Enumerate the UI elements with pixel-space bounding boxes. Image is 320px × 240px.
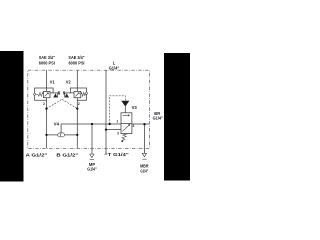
node A shuttle junction — [45, 134, 47, 136]
svg-text:V1: V1 — [50, 80, 56, 85]
svg-text:T G1/4": T G1/4" — [108, 152, 129, 157]
svg-text:V2: V2 — [66, 80, 72, 85]
node B shuttle junction — [76, 134, 78, 136]
wire: L/T line — [105, 70, 107, 152]
valve V1 loop wire — [35, 88, 54, 100]
black scan bar right — [164, 53, 190, 181]
valve V2 seat line — [65, 92, 74, 94]
valve V1 check outlet wire — [53, 93, 57, 97]
svg-text:6000 PSI: 6000 PSI — [39, 60, 55, 65]
black scan bar left — [0, 51, 24, 182]
valve V3 divider — [121, 122, 132, 124]
svg-text:3: 3 — [117, 131, 119, 135]
svg-text:1: 1 — [63, 91, 65, 95]
wire: V4 output riser — [61, 124, 121, 133]
node T junction — [105, 128, 107, 130]
svg-text:B G1/2": B G1/2" — [56, 152, 78, 157]
valve V1 seat line — [50, 92, 58, 94]
svg-text:6000 PSI: 6000 PSI — [69, 60, 85, 65]
valve V3 pilot line (dashed) — [110, 96, 126, 124]
svg-text:2: 2 — [43, 102, 45, 106]
wire: V3 port2 to BR — [132, 123, 150, 125]
svg-text:G1/4": G1/4" — [153, 116, 163, 121]
svg-text:1: 1 — [58, 91, 60, 95]
wire: B line from V2 to port B — [76, 98, 78, 149]
wire: SAE port P1 riser to V1 — [46, 70, 48, 91]
valve V2 check triangle — [65, 93, 69, 97]
valve V3 pilot triangle (filled) — [121, 101, 129, 107]
svg-text:2: 2 — [133, 124, 135, 128]
wire: MBR drop line — [144, 124, 146, 153]
manifold boundary (dash-dot) — [28, 70, 150, 148]
svg-text:G1/4": G1/4" — [140, 168, 148, 173]
node B pilot junction — [76, 107, 78, 109]
pilot cross lines (dashed tent) — [47, 99, 63, 108]
valve V3 bottom cell arrow — [122, 124, 129, 131]
svg-text:2: 2 — [78, 102, 80, 106]
valve V1 drain diamond — [33, 93, 36, 96]
svg-text:V3: V3 — [132, 105, 138, 110]
valve V3 top cell arrow — [123, 115, 130, 116]
valve V3 pilot stem — [124, 106, 126, 112]
port T arrow mark — [105, 152, 107, 155]
node MP junction — [91, 123, 93, 125]
svg-text:A G1/2": A G1/2" — [26, 152, 48, 157]
valve V3 box — [121, 113, 132, 134]
valve V2 spring — [81, 93, 87, 97]
valve V2 drain diamond — [85, 92, 88, 95]
valve V3 spring arrow tip — [121, 140, 124, 142]
valve V2 arrow — [75, 93, 79, 97]
port MBR symbol tick — [142, 158, 146, 160]
valve V1 arrow — [45, 93, 49, 97]
node A pilot junction — [45, 107, 47, 109]
port MP symbol tick — [90, 158, 94, 160]
wire: A line from V1 to port A — [46, 98, 48, 149]
shuttle V4 circles — [58, 133, 62, 137]
svg-text:V4: V4 — [54, 122, 60, 127]
valve V2 check outlet wire — [65, 93, 69, 97]
svg-text:G1/4": G1/4" — [87, 166, 96, 171]
wire: V4 bridge A-B — [47, 134, 78, 136]
node BR junction — [143, 123, 145, 125]
wire: SAE port P2 riser to V2 — [76, 70, 78, 91]
wire: V3 port3 to tank line — [106, 129, 121, 131]
svg-text:G1/4": G1/4" — [109, 65, 120, 70]
valve V3 spring — [121, 134, 127, 141]
svg-text:1: 1 — [117, 119, 119, 123]
valve V2 main box — [74, 91, 81, 97]
port MBR symbol triangle — [142, 153, 146, 157]
valve V2 loop wire — [70, 88, 86, 100]
wire: MP drop line — [91, 124, 93, 154]
valve V1 spring — [36, 93, 44, 97]
port MP symbol triangle — [90, 154, 94, 158]
valve V1 check triangle — [54, 93, 58, 97]
node V3 pilot junction — [109, 123, 111, 125]
valve V1 main box — [43, 91, 50, 97]
